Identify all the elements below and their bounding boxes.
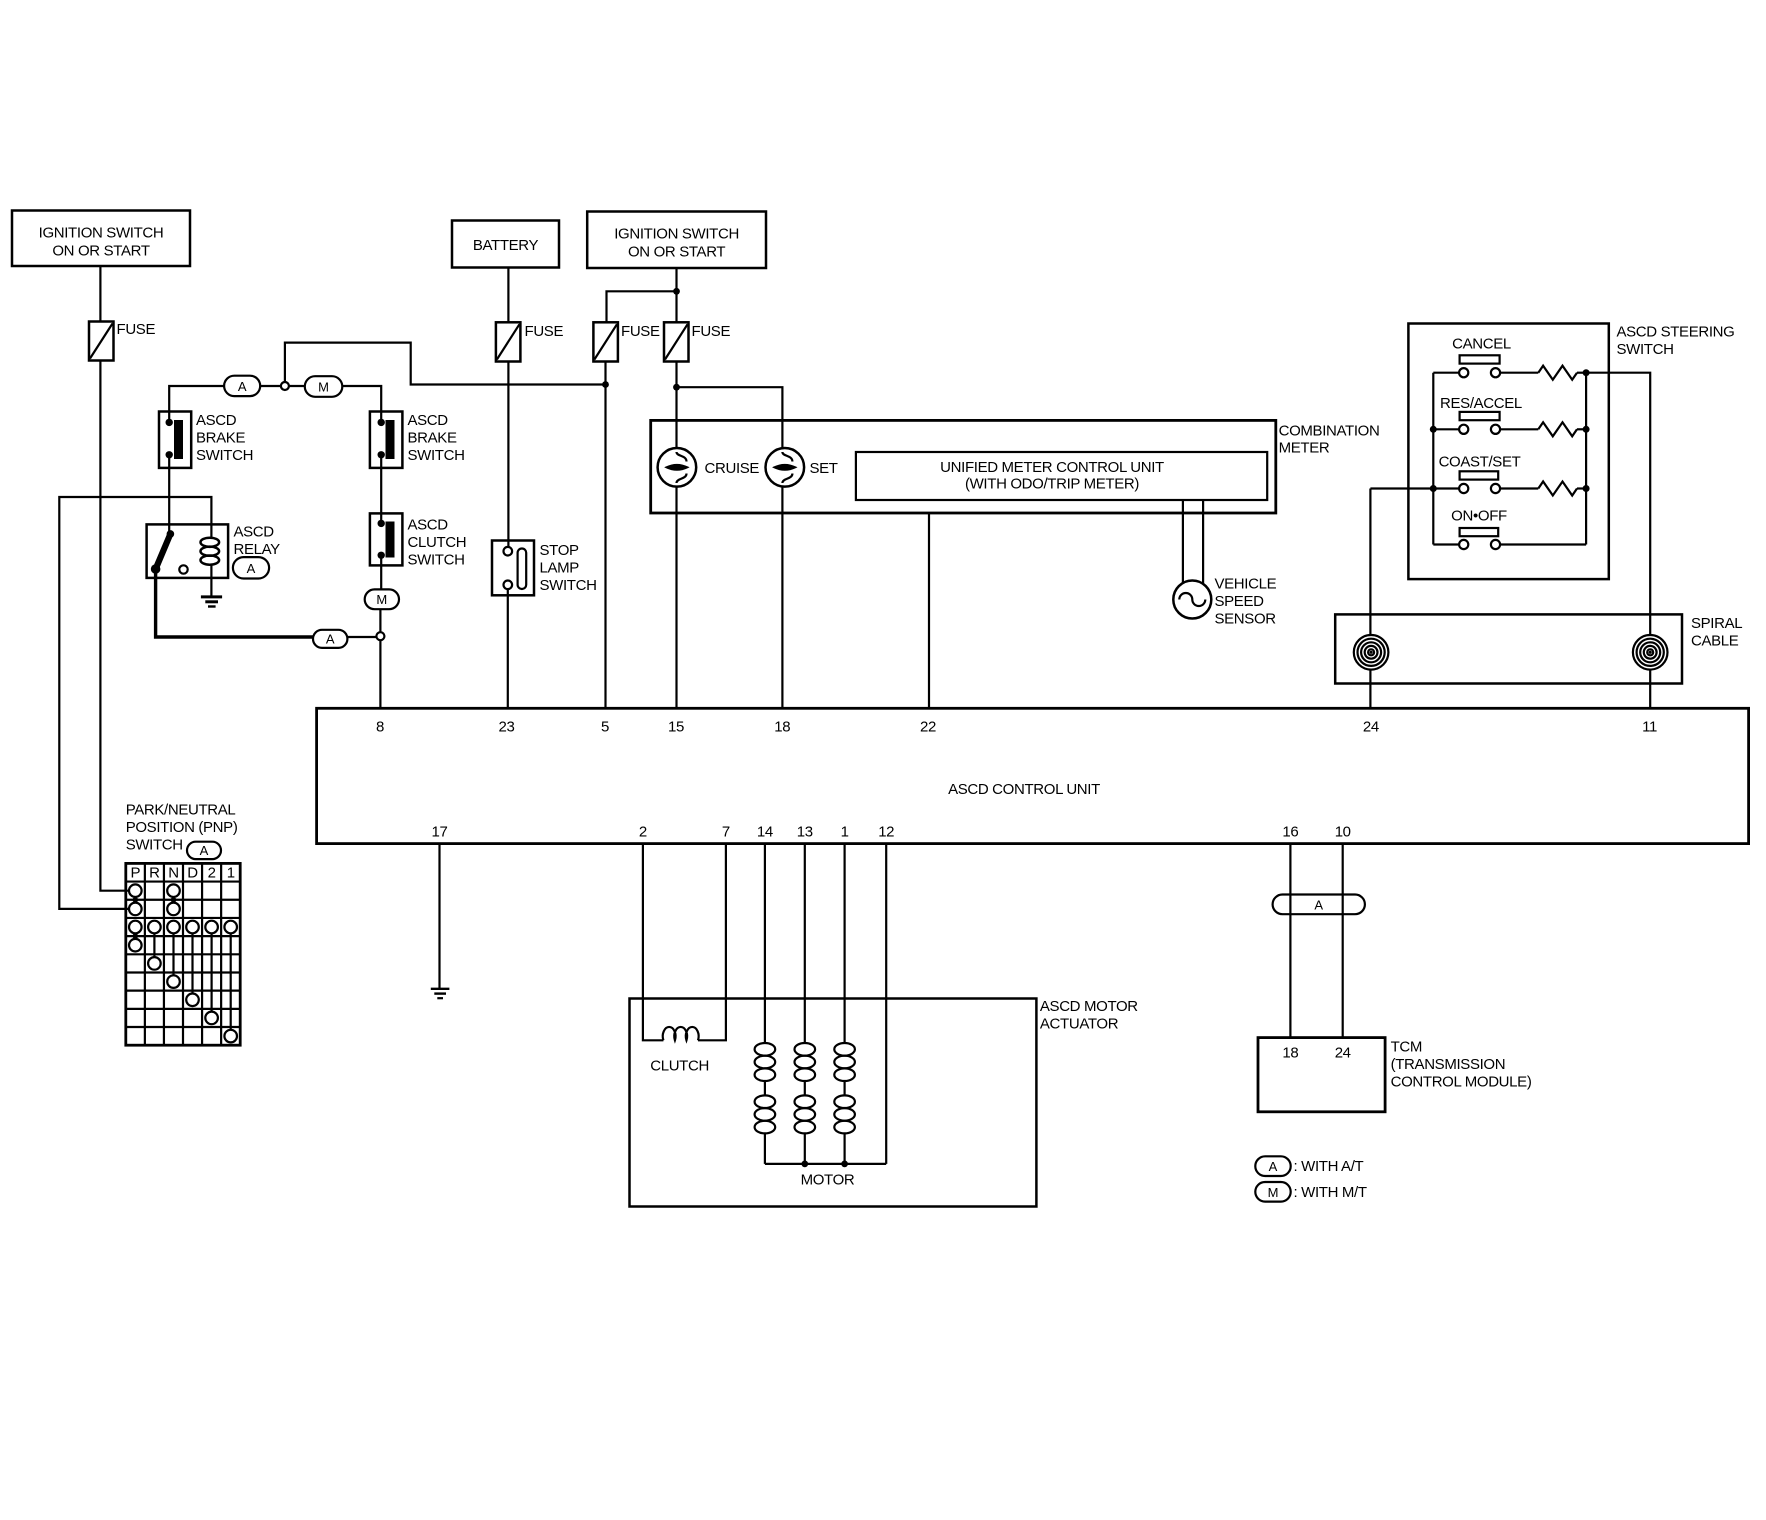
wire cancel row to spiral cable right — [1586, 373, 1650, 635]
svg-text:M: M — [376, 592, 387, 607]
unified meter control unit box — [856, 452, 1267, 500]
svg-text:ASCD STEERING: ASCD STEERING — [1617, 324, 1735, 341]
svg-text:ASCD: ASCD — [408, 412, 449, 429]
wire — [289, 385, 305, 387]
RES/ACCEL switch — [1433, 395, 1538, 434]
wire pin 2 to clutch coil — [643, 844, 664, 1041]
ignition switch 2 box — [587, 212, 766, 269]
wire left spiral feed — [1369, 489, 1371, 635]
spiral symbol right — [1633, 635, 1668, 670]
svg-text:18: 18 — [1282, 1045, 1298, 1062]
fuse F4 — [664, 322, 730, 361]
stop lamp switch — [492, 541, 597, 596]
PNP 1 circle row 9 — [224, 1030, 237, 1043]
connector A wide oval — [1273, 895, 1365, 915]
wire pin 7 to clutch coil — [698, 844, 726, 1041]
wire node to M oval 2 — [379, 609, 381, 632]
svg-text:PARK/NEUTRAL: PARK/NEUTRAL — [126, 802, 236, 819]
motor coil 1 — [755, 1043, 776, 1164]
svg-text:BATTERY: BATTERY — [473, 237, 539, 254]
svg-text:(WITH ODO/TRIP METER): (WITH ODO/TRIP METER) — [965, 476, 1139, 493]
wire pin 1 to motor coil 3 — [843, 844, 845, 1043]
svg-text:CANCEL: CANCEL — [1452, 336, 1511, 353]
thick wire relay to connector A — [156, 573, 313, 637]
svg-text:5: 5 — [601, 719, 609, 736]
wire — [1577, 428, 1586, 430]
wire fuse F4 to cruise lamp and pin 15 — [675, 362, 677, 449]
ASCD brake switch 2 — [370, 412, 465, 468]
svg-text:SWITCH: SWITCH — [126, 837, 183, 854]
svg-text:ON OR START: ON OR START — [628, 244, 725, 261]
SET indicator lamp — [766, 448, 838, 487]
svg-text:TCM: TCM — [1391, 1039, 1422, 1056]
ON/OFF switch — [1433, 508, 1586, 550]
svg-text:A: A — [238, 379, 247, 394]
motor coil 3 — [834, 1043, 855, 1164]
svg-text:13: 13 — [797, 824, 813, 841]
motor junction dots — [801, 1161, 808, 1168]
wire ignition1 to fuse — [99, 266, 101, 322]
svg-text:8: 8 — [376, 719, 384, 736]
wire — [260, 385, 281, 387]
svg-text:CLUTCH: CLUTCH — [650, 1058, 709, 1075]
node junction circle — [281, 382, 289, 390]
ASCD relay — [147, 524, 281, 578]
wire fuse F3 to pin 5 — [604, 362, 606, 709]
junction dot — [673, 288, 680, 295]
spiral cable box — [1335, 614, 1742, 683]
svg-text:CABLE: CABLE — [1691, 633, 1739, 650]
wire pin 12 to motor common — [885, 844, 887, 1164]
CRUISE indicator lamp — [658, 448, 760, 487]
svg-text:ASCD: ASCD — [234, 524, 275, 541]
svg-text:24: 24 — [1335, 1045, 1351, 1062]
svg-text:ON OR START: ON OR START — [52, 243, 149, 260]
wire clutch switch to M oval — [380, 555, 382, 589]
resistor R1 — [1538, 366, 1577, 380]
combination meter box — [651, 420, 1380, 513]
connector A oval at PNP switch — [187, 842, 221, 859]
wire left spiral to pin 24 — [1369, 670, 1371, 708]
PNP contact circles row 3 — [129, 921, 237, 934]
ground at pin 17 — [431, 989, 450, 998]
svg-text:11: 11 — [1642, 719, 1657, 736]
svg-text:ON•OFF: ON•OFF — [1451, 508, 1507, 525]
wire brake switch 2 to clutch switch — [380, 455, 382, 524]
svg-text:7: 7 — [722, 824, 730, 841]
svg-text:CONTROL MODULE): CONTROL MODULE) — [1391, 1074, 1532, 1091]
PNP connector line N — [172, 933, 174, 975]
wire brake switch 1 to relay — [168, 455, 170, 534]
svg-text:A: A — [200, 843, 209, 858]
PNP contact circles row 1 — [129, 884, 142, 897]
svg-text:A: A — [1269, 1159, 1278, 1174]
junction dot left bus — [1430, 426, 1437, 433]
svg-text:UNIFIED METER CONTROL UNIT: UNIFIED METER CONTROL UNIT — [940, 459, 1164, 476]
PNP connector line R — [153, 933, 155, 957]
wire relay coil to ground — [210, 565, 212, 597]
svg-text:COAST/SET: COAST/SET — [1439, 454, 1521, 471]
PARK/NEUTRAL POSITION switch label — [126, 802, 238, 854]
wire pin 17 to ground — [438, 844, 440, 989]
svg-text:MOTOR: MOTOR — [801, 1172, 855, 1189]
svg-text:17: 17 — [432, 824, 448, 841]
connector A oval at relay — [233, 557, 269, 578]
svg-text:16: 16 — [1282, 824, 1298, 841]
svg-text:IGNITION SWITCH: IGNITION SWITCH — [39, 225, 164, 242]
svg-text:: WITH M/T: : WITH M/T — [1294, 1184, 1367, 1201]
svg-text:18: 18 — [774, 719, 790, 736]
svg-text:24: 24 — [1363, 719, 1379, 736]
wire meter to pin 22 — [928, 513, 930, 708]
svg-text:2: 2 — [639, 824, 647, 841]
svg-text:ACTUATOR: ACTUATOR — [1040, 1016, 1119, 1033]
motor common wire — [765, 1163, 886, 1165]
ASCD brake switch 1 — [159, 412, 253, 468]
svg-text:M: M — [1268, 1185, 1279, 1200]
left bus wire — [1432, 373, 1434, 545]
svg-text:ASCD: ASCD — [408, 517, 449, 534]
junction dot — [1583, 485, 1590, 492]
svg-text:POSITION (PNP): POSITION (PNP) — [126, 819, 238, 836]
connector A (A/T) oval 1 — [224, 376, 260, 396]
COAST/SET switch — [1433, 454, 1538, 494]
wire battery to fuse F2 — [507, 268, 509, 323]
node junction circle 2 — [376, 632, 384, 640]
PNP D circle row 7 — [186, 994, 199, 1007]
ignition switch 1 box — [12, 211, 190, 267]
svg-text:SET: SET — [810, 460, 838, 477]
svg-text:15: 15 — [668, 719, 684, 736]
fuse F3 — [593, 322, 660, 361]
wire fuse F2 to stop lamp switch — [507, 362, 509, 548]
svg-text:ASCD: ASCD — [196, 412, 237, 429]
svg-text:1: 1 — [841, 824, 849, 841]
connector M (M/T) oval 1 — [305, 376, 343, 397]
fuse F2 — [496, 322, 564, 361]
svg-text:CRUISE: CRUISE — [705, 460, 760, 477]
svg-text:CLUTCH: CLUTCH — [408, 534, 467, 551]
svg-text:P: P — [130, 865, 140, 882]
svg-text:LAMP: LAMP — [540, 560, 580, 577]
PNP P column circle row 4 — [129, 939, 142, 952]
junction dot — [1583, 426, 1590, 433]
svg-text:22: 22 — [920, 719, 936, 736]
svg-text:A: A — [326, 631, 335, 646]
svg-text:A: A — [1314, 898, 1323, 913]
svg-text:BRAKE: BRAKE — [408, 430, 457, 447]
legend connector A — [1255, 1156, 1363, 1176]
PNP pair junction dot P — [133, 933, 139, 939]
wire pin 16 to TCM 18 — [1289, 844, 1291, 1038]
svg-text:SWITCH: SWITCH — [196, 447, 253, 464]
svg-text:(TRANSMISSION: (TRANSMISSION — [1391, 1056, 1506, 1073]
motor coil 2 — [795, 1043, 816, 1164]
wire node to pin 8 — [379, 640, 381, 708]
svg-text:BRAKE: BRAKE — [196, 430, 245, 447]
vehicle speed sensor — [1173, 576, 1276, 628]
svg-text:FUSE: FUSE — [117, 321, 156, 338]
svg-text:COMBINATION: COMBINATION — [1279, 423, 1380, 440]
PNP switch grid — [126, 863, 240, 1045]
svg-text:RES/ACCEL: RES/ACCEL — [1440, 395, 1522, 412]
svg-text:ASCD MOTOR: ASCD MOTOR — [1040, 998, 1138, 1015]
junction dot at fuse3 wire — [602, 381, 609, 388]
PNP R circle row 5 — [148, 957, 161, 970]
svg-text:N: N — [168, 865, 178, 882]
wire — [347, 636, 376, 638]
wire fuse F1 to PNP switch row1 — [100, 361, 129, 891]
resistor R2 — [1538, 422, 1577, 436]
PNP 2 circle row 8 — [205, 1012, 218, 1025]
wire pin 14 to motor coil 1 — [764, 844, 766, 1043]
svg-text:SWITCH: SWITCH — [1617, 341, 1674, 358]
svg-text:D: D — [187, 865, 198, 882]
wire M oval to brake switch 2 — [342, 386, 381, 422]
right bus wire — [1585, 373, 1587, 545]
wire relay coil feed to PNP switch row2 — [59, 497, 211, 909]
spiral symbol left — [1354, 635, 1389, 670]
wire — [1577, 372, 1586, 374]
ASCD clutch switch — [370, 513, 466, 568]
wire branch to fuse F3 — [607, 291, 677, 322]
junction dot left bus — [1430, 485, 1437, 492]
svg-text:R: R — [149, 865, 160, 882]
battery box — [452, 221, 559, 268]
svg-text:SWITCH: SWITCH — [540, 577, 597, 594]
svg-text:FUSE: FUSE — [692, 323, 731, 340]
svg-text:ASCD CONTROL UNIT: ASCD CONTROL UNIT — [948, 781, 1100, 798]
svg-text:VEHICLE: VEHICLE — [1215, 576, 1277, 593]
PNP N circle row 6 — [167, 975, 180, 988]
fuse F1 — [89, 321, 155, 361]
legend connector M — [1255, 1182, 1367, 1202]
svg-text:RELAY: RELAY — [234, 541, 281, 558]
wire stop lamp switch to pin 23 — [507, 589, 509, 708]
CANCEL switch — [1433, 336, 1538, 378]
wire branch to SET lamp and pin 18 — [677, 387, 783, 448]
wire pin 10 to TCM 24 — [1342, 844, 1344, 1038]
PNP contact circles row 2 — [129, 903, 142, 916]
ASCD control unit box — [317, 708, 1749, 843]
wire right spiral to pin 11 — [1649, 670, 1651, 708]
svg-text:2: 2 — [208, 865, 216, 882]
svg-text:23: 23 — [499, 719, 515, 736]
ASCD steering switch box — [1408, 324, 1734, 580]
svg-text:M: M — [318, 379, 329, 394]
wire brake switch 1 to connector A — [169, 386, 224, 422]
clutch coil — [650, 1027, 709, 1075]
svg-text:A: A — [247, 561, 256, 576]
svg-text:STOP: STOP — [540, 542, 580, 559]
PNP pair junction dots — [133, 897, 139, 903]
PNP connector line 2 — [211, 933, 213, 1011]
svg-text:12: 12 — [878, 824, 894, 841]
svg-text:SWITCH: SWITCH — [408, 552, 465, 569]
svg-text:SPEED: SPEED — [1215, 593, 1265, 610]
svg-text:SWITCH: SWITCH — [408, 447, 465, 464]
svg-text:10: 10 — [1335, 824, 1351, 841]
svg-text:1: 1 — [227, 865, 235, 882]
wire COAST/SET to spiral cable left — [1370, 487, 1433, 489]
svg-text:FUSE: FUSE — [621, 323, 660, 340]
svg-text:SPIRAL: SPIRAL — [1691, 615, 1742, 632]
wire — [1577, 487, 1586, 489]
wire ignition2 down — [675, 268, 677, 322]
TCM box — [1258, 1038, 1532, 1112]
junction dot below fuse F4 — [673, 384, 680, 391]
connector A oval 3 — [313, 630, 347, 648]
svg-text:14: 14 — [757, 824, 773, 841]
svg-text:FUSE: FUSE — [525, 323, 564, 340]
junction dot — [1583, 369, 1590, 376]
wire node to fuse-3 feed — [285, 343, 605, 385]
wire pin 13 to motor coil 2 — [804, 844, 806, 1043]
svg-text:IGNITION SWITCH: IGNITION SWITCH — [614, 226, 739, 243]
resistor R3 — [1538, 482, 1577, 496]
svg-text:SENSOR: SENSOR — [1215, 611, 1277, 628]
PNP connector line 1 — [230, 933, 232, 1030]
ASCD motor actuator box — [630, 998, 1139, 1207]
svg-text:METER: METER — [1279, 440, 1330, 457]
wires unified box to speed sensor — [1182, 500, 1184, 584]
connector M (M/T) oval 2 — [365, 589, 399, 609]
ground below relay — [201, 597, 222, 607]
svg-text:: WITH A/T: : WITH A/T — [1294, 1158, 1364, 1175]
PNP connector line D — [191, 933, 193, 993]
